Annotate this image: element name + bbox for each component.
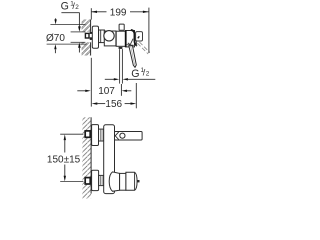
mid section (top view)	[116, 31, 125, 46]
156 extension line	[135, 83, 137, 108]
svg-text:156: 156	[105, 99, 122, 110]
dim 199	[91, 7, 148, 18]
wall hatched band (side view)	[82, 117, 91, 198]
199 extension line right	[148, 8, 150, 53]
knob face line	[134, 172, 136, 190]
small top box (top view)	[119, 24, 124, 30]
body column (side view)	[104, 125, 115, 194]
150 extension lines	[60, 134, 83, 181]
svg-text:199: 199	[110, 7, 127, 18]
ball joint circle	[104, 31, 114, 41]
knob nub	[137, 180, 139, 182]
G1/2 leader vertical + arrow down	[78, 13, 81, 32]
svg-text:107: 107	[98, 86, 115, 97]
thick cartridge flange line	[125, 30, 127, 47]
svg-text:2: 2	[75, 4, 79, 11]
svg-text:Ø70: Ø70	[46, 33, 65, 44]
outlet extension lines down	[120, 49, 123, 84]
label G 1/2 (bottom)	[131, 67, 150, 80]
wall (top view) hatched band upper part	[82, 20, 91, 56]
G1/2 top leader underline	[61, 12, 79, 14]
top union nut (side view)	[99, 129, 104, 141]
wall face extension line (below wall)	[90, 58, 92, 107]
bottom supply elbow (in wall)	[85, 178, 90, 184]
G1/2 bottom: left arrow piece	[105, 78, 119, 80]
handle collar	[120, 173, 126, 190]
Ø70 bottom arrow	[54, 44, 56, 53]
Ø70 extension lines	[47, 25, 87, 44]
arm hole	[120, 133, 125, 138]
handle cone (side view)	[109, 172, 119, 191]
dim 107	[77, 86, 131, 97]
mark inside square	[138, 36, 140, 38]
arm cone transition	[115, 132, 119, 140]
top escutcheon (side view)	[92, 125, 99, 146]
wall line (side view)	[90, 117, 92, 193]
Ø70 top arrow	[54, 18, 56, 24]
svg-text:150±15: 150±15	[47, 154, 81, 165]
handle knob	[126, 172, 137, 190]
svg-text:G: G	[131, 68, 139, 80]
bottom union nut (side view)	[99, 175, 104, 185]
lever grip shade line	[131, 46, 135, 65]
wall face line (top view)	[90, 20, 92, 56]
bottom escutcheon (side view)	[92, 170, 99, 190]
lever neck thin lines	[128, 39, 133, 45]
lever end square (top view)	[136, 32, 143, 41]
dim 156	[92, 99, 137, 110]
pipe extension lines (horizontal)	[71, 32, 86, 42]
body block (top view)	[104, 31, 116, 46]
nipple bits between wall and escutcheon	[90, 32, 93, 40]
svg-text:2: 2	[146, 70, 150, 77]
lever housing (top view)	[126, 31, 135, 47]
107 extension line	[120, 84, 122, 96]
G1/2 lower arrow up	[78, 42, 81, 52]
G1/2 supply square in wall	[85, 33, 89, 38]
union nut (top view)	[99, 30, 105, 43]
swung-lever dashed diagonals	[137, 42, 149, 54]
housing heavy right edge curve	[131, 30, 137, 46]
G1/2 bottom: right arrow + underline	[123, 78, 156, 80]
shower outlet stub (dark)	[119, 47, 123, 49]
lever plate lines	[126, 41, 136, 45]
199 extension line left	[90, 8, 92, 19]
top supply elbow (in wall)	[85, 131, 90, 137]
label G 1/2 (top)	[61, 0, 80, 12]
svg-text:G: G	[61, 0, 69, 12]
dim 150±15	[47, 134, 81, 181]
lever grip	[129, 46, 137, 68]
top arm (side view)	[115, 132, 143, 141]
escutcheon (top view)	[92, 26, 98, 48]
